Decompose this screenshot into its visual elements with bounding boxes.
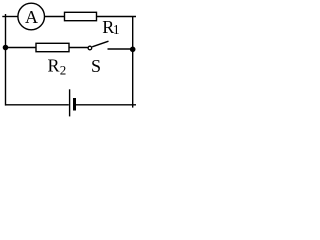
switch S contact circle xyxy=(88,46,92,50)
svg-text:A: A xyxy=(25,7,38,27)
svg-text:1: 1 xyxy=(113,22,120,37)
wire: top middle segment xyxy=(45,16,65,18)
wire: middle left segment xyxy=(6,47,37,49)
ammeter A1 xyxy=(18,3,45,30)
svg-text:S: S xyxy=(91,56,101,76)
battery short plate xyxy=(73,98,76,111)
battery long plate xyxy=(69,89,71,116)
wire: bottom right segment xyxy=(76,104,136,106)
wire: left vertical xyxy=(5,14,7,106)
switch S lever xyxy=(92,41,108,47)
wire: top right segment xyxy=(97,16,137,18)
node: right junction xyxy=(130,47,136,53)
svg-text:R: R xyxy=(48,56,60,76)
resistor R2 xyxy=(36,43,69,51)
wire: top left segment xyxy=(2,16,18,18)
wire: middle right segment xyxy=(108,48,133,50)
resistor R1 xyxy=(65,12,97,20)
wire: bottom left segment xyxy=(5,104,69,106)
svg-text:2: 2 xyxy=(60,62,67,77)
wire: middle segment to switch xyxy=(69,47,88,49)
node: left junction xyxy=(3,45,9,51)
wire: right vertical xyxy=(132,16,134,108)
